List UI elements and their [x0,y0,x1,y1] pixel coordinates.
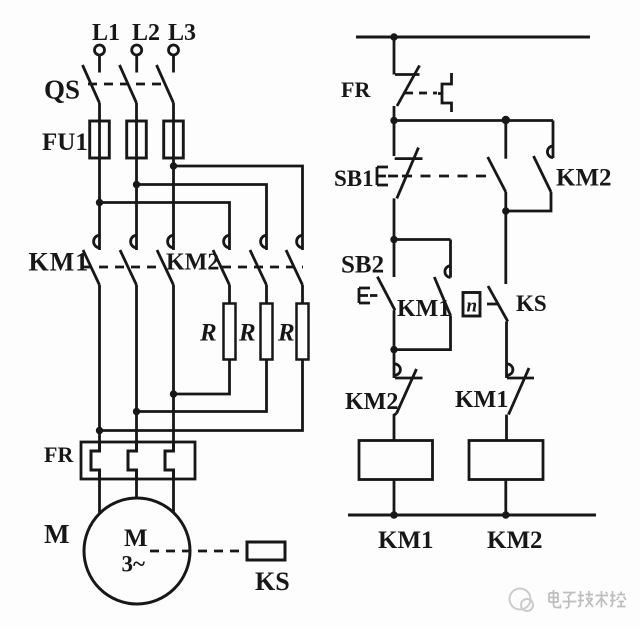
wire KM2 pole1 to resistor [228,285,231,304]
node junction resistor1 to phase3 [170,390,177,397]
wire to KM1 aux branch [394,238,451,241]
svg-text:3~: 3~ [122,552,146,577]
node L1 [92,20,120,55]
wire FR to motor phase3 [172,479,175,513]
svg-text:SB1: SB1 [334,166,374,191]
svg-text:R: R [238,320,256,347]
watermark text [549,590,626,608]
wire QS to FU1 pole1 [98,103,101,250]
wire FR contact to rail2 [393,106,396,121]
wire rail2 [394,119,553,122]
svg-text:KM1: KM1 [397,296,450,322]
svg-text:QS: QS [44,75,80,105]
button SB1 NC contact [334,121,423,199]
svg-text:SB2: SB2 [341,252,384,279]
watermark logo [510,589,534,612]
wire resistor3 bottom crossover [100,360,303,431]
node junction bottom rail KM1 [390,511,398,519]
resistor R phase3 [277,304,309,360]
contactor KM1 aux NO contact [394,240,451,350]
svg-text:L1: L1 [92,20,120,46]
svg-text:KM2: KM2 [345,389,398,415]
svg-text:KM2: KM2 [166,250,219,276]
contactor KM2 aux NO contact [506,121,612,212]
switch QS [44,65,174,105]
wire KM2 pole2 to resistor [265,285,268,304]
svg-text:M: M [124,525,148,552]
sensor KS speed relay [247,542,290,596]
wire linkage SB1 dashed [402,175,492,178]
wire L3 stub [172,55,175,73]
svg-text:n: n [467,296,478,317]
wire control bottom rail [348,514,596,517]
button SB1 NO contact [488,121,506,212]
wire QS to FU1 pole3 [172,103,175,250]
wire mechanical linkage KM1-KM2 [83,266,159,269]
svg-text:FR: FR [341,77,371,102]
relay FR thermal element block [44,442,195,479]
contactor KM1 NC interlock [455,364,534,441]
node junction resistor2 to phase2 [133,408,140,415]
coil KM2 [469,441,543,516]
node junction SB2 top [390,236,397,243]
node junction top rail [390,33,397,40]
node junction phase3 feeder [170,162,177,169]
fuse FU1 [42,121,183,158]
svg-text:KM2: KM2 [487,527,543,554]
node junction resistor3 to phase1 [96,427,103,434]
motor M [44,498,190,604]
contactor KM1 main contacts [29,235,174,285]
svg-text:KM1: KM1 [378,527,434,554]
wire KS branch down [504,211,507,284]
svg-text:R: R [277,320,295,347]
node junction phase2 feeder [133,181,140,188]
svg-text:KM1: KM1 [455,387,508,413]
node junction phase1 feeder [96,199,103,206]
wire KM2 pole3 to resistor [301,285,304,304]
wire QS to FU1 pole2 [135,103,138,250]
wire KS contact down [505,322,508,379]
svg-text:R: R [199,320,217,347]
wire FR to motor phase1 [98,479,101,514]
svg-text:L3: L3 [168,20,196,46]
node junction SB2 bottom [390,346,397,353]
svg-text:KM2: KM2 [556,165,612,192]
wire dashed motor to KS [150,550,246,553]
node L3 [168,20,196,55]
svg-text:M: M [44,519,69,549]
resistor R phase1 [199,304,236,360]
button SB2 NO contact [341,198,395,310]
wire control top rail [356,36,590,39]
resistor R phase2 [238,304,273,360]
node junction rail2 middle [502,116,510,124]
wire KM1 pole2 down [135,285,138,442]
wire FR to motor phase2 [135,479,138,498]
svg-text:L2: L2 [132,20,160,46]
contactor KM2 NC interlock [345,350,423,441]
coil KM1 [359,441,433,516]
svg-text:KS: KS [516,291,547,316]
wire L2 stub [135,55,138,73]
svg-text:KM1: KM1 [29,248,90,277]
wire feeder phase2 to KM2 pole2 [137,185,267,251]
svg-text:FU1: FU1 [42,129,88,156]
wire resistor1 bottom crossover [174,360,230,395]
wire feeder phase3 to KM2 pole3 [174,166,303,250]
wire KM1 pole3 down [172,285,175,442]
svg-text:KS: KS [255,567,290,596]
node junction bottom rail KM2 [502,511,510,519]
relay FR NC contact [341,37,452,112]
node junction KS branch top [502,207,509,214]
node L2 [132,20,160,55]
wire resistor2 bottom crossover [137,360,267,412]
contactor KM2 main contacts [166,235,303,285]
node junction rail2 left [390,117,397,124]
sensor KS contact with n [463,286,547,322]
wire KM1 pole1 down [98,285,101,442]
wire SB2 down [393,310,396,349]
wire feeder phase1 to KM2 pole1 [100,203,230,251]
wire L1 stub [98,55,101,73]
svg-text:FR: FR [44,442,74,467]
